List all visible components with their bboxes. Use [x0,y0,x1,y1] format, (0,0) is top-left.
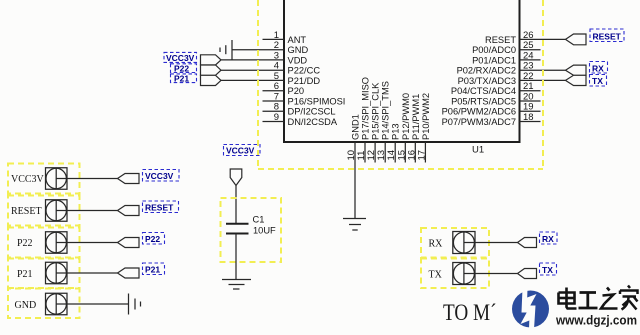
svg-text:P03/TX/ADC3: P03/TX/ADC3 [458,76,516,86]
connector J VCC3V [8,164,80,194]
wire [67,178,118,180]
wire pin26 RESET [520,38,566,40]
connector J GND [8,288,80,318]
wire [67,210,118,212]
svg-text:P06/PWM2/ADC6: P06/PWM2/ADC6 [442,107,516,117]
svg-text:P20: P20 [288,86,305,96]
svg-text:P21: P21 [174,74,189,84]
wire pin20 [520,100,541,102]
wire pin24 [520,59,541,61]
connector J P21 [8,259,80,289]
port P21 row4 [118,268,140,278]
svg-text:TO M´: TO M´ [443,300,497,325]
svg-text:P22: P22 [145,234,160,244]
wire pin10 GND1 [354,142,356,219]
svg-text:VCC3V: VCC3V [145,171,174,181]
svg-text:RESET: RESET [485,35,516,45]
net label P22 [171,63,197,73]
logo text dian [559,288,577,309]
ground under pin10 [343,219,366,231]
svg-text:P05/RTS/ADC5: P05/RTS/ADC5 [451,97,516,107]
connector J TX [421,259,489,289]
svg-text:VDD: VDD [288,55,308,65]
svg-text:RX: RX [429,239,444,250]
wire pin11 [364,142,366,163]
svg-text:P14/SPI_TMS: P14/SPI_TMS [381,81,391,140]
svg-text:P21: P21 [17,269,33,280]
wire [475,273,518,275]
svg-text:P22: P22 [17,238,33,249]
connector J RESET [8,196,80,226]
connector J P22 [8,228,80,258]
svg-text:P00/ADC0: P00/ADC0 [472,45,516,55]
svg-text:P07/PWM3/ADC7: P07/PWM3/ADC7 [442,117,516,127]
svg-text:P10/PWM2: P10/PWM2 [421,93,431,140]
svg-text:RX: RX [592,63,604,73]
port P22 left [201,65,222,75]
net label RX bottom [540,232,558,244]
svg-text:P12/PWM0: P12/PWM0 [401,93,411,140]
svg-text:10UF: 10UF [253,226,276,236]
svg-text:RESET: RESET [593,31,622,41]
logo text jia [620,286,638,310]
net label VCC3V [164,52,197,63]
wire [475,242,518,244]
port RX bottom [518,238,537,248]
wire [67,242,118,244]
net label P21 row4 [143,263,165,275]
wire pin18 [520,121,541,123]
logo lightning bolt [521,289,537,330]
logo circle [512,291,549,328]
svg-text:P15/SPI_CLK: P15/SPI_CLK [371,82,381,140]
svg-text:P02/RX/ADC2: P02/RX/ADC2 [457,66,516,76]
net label RESET [590,29,624,42]
svg-text:P16/SPIMOSI: P16/SPIMOSI [288,97,346,107]
port RX right [566,65,587,75]
net label TX [590,75,607,87]
op-amp U1 IC body [284,0,520,142]
wire pin22 TX [520,79,566,81]
wire pin15 [404,142,406,163]
wire C1 to ground [235,234,237,280]
net label P22 row3 [143,233,165,245]
svg-text:VCC3V: VCC3V [166,53,195,63]
wire pin17 [424,142,426,163]
svg-text:RX: RX [542,234,554,244]
wire pin3 VDD [221,59,284,61]
wire pin16 [414,142,416,163]
wire pin12 [374,142,376,163]
wire pin1 ANT [263,38,285,40]
net label TX bottom [540,263,557,275]
connector J RX [421,228,489,258]
svg-text:18: 18 [523,112,534,123]
wire VCC3V to C1 [235,186,237,224]
wire [67,303,129,305]
logo text zhi [601,288,618,309]
net label RX [590,62,608,74]
svg-text:www.dgzj.com: www.dgzj.com [555,313,637,328]
value C1 10UF [253,215,277,236]
port TX right [566,75,587,85]
svg-text:P13: P13 [391,123,401,140]
svg-text:P21/DD: P21/DD [288,76,321,86]
net label P21 [171,74,197,84]
svg-text:DN/I2CSDA: DN/I2CSDA [288,117,338,127]
svg-text:GND: GND [15,300,37,311]
svg-text:TX: TX [542,265,553,275]
port VCC3V down [230,169,242,186]
wire pin6 P20 [263,90,285,92]
wire pin8 DP [263,110,285,112]
svg-text:TX: TX [429,270,443,281]
wire pin25 [520,49,541,51]
wire pin5 P21/DD [221,79,284,81]
port RESET right [566,34,587,45]
wire pin19 [520,110,541,112]
wire pin13 [384,142,386,163]
wire pin9 DN [263,121,285,123]
svg-text:TX: TX [592,76,603,86]
svg-text:U1: U1 [472,145,484,156]
svg-text:17: 17 [416,150,427,161]
wire pin4 P22/CC [221,69,284,71]
capacitor C1 [226,224,249,234]
wire pin7 P16 [263,100,285,102]
svg-text:P21: P21 [145,265,160,275]
svg-text:P04/CTS/ADC4: P04/CTS/ADC4 [451,86,516,96]
svg-text:P22/CC: P22/CC [288,66,321,76]
svg-text:P01/ADC1: P01/ADC1 [472,55,516,65]
svg-text:ANT: ANT [288,35,307,45]
svg-text:GND: GND [288,45,309,55]
svg-text:P11/PWM1: P11/PWM1 [411,94,421,140]
wire pin21 [520,90,541,92]
svg-text:P22: P22 [174,63,189,73]
net label VCC3V top [224,145,261,156]
port RESET row2 [118,206,140,216]
wire pin2 GND [232,49,284,51]
svg-text:RESET: RESET [11,206,42,217]
port VCC3V left [201,55,222,65]
ground pin2 rotated [220,40,232,60]
selection box C1 [221,198,282,262]
svg-text:DP/I2CSCL: DP/I2CSCL [288,107,336,117]
wire [67,272,118,274]
svg-text:C1: C1 [253,215,265,225]
selection box U1 [258,0,543,169]
svg-text:GND1: GND1 [351,114,361,140]
ground under C1 [222,280,251,290]
port VCC3V row1 [118,174,140,184]
svg-text:RESET: RESET [145,203,174,213]
wire pin23 RX [520,69,566,71]
port P22 row3 [118,238,140,248]
svg-text:P17/SPI_MISO: P17/SPI_MISO [361,77,371,140]
ground GND row rotated [129,294,141,315]
svg-text:VCC3V: VCC3V [11,174,45,185]
net label RESET row2 [143,201,179,213]
wire pin14 [394,142,396,163]
svg-text:9: 9 [274,112,279,123]
logo text gong [579,293,598,309]
svg-text:VCC3V: VCC3V [226,146,255,156]
net label VCC3V row1 [143,170,180,182]
port TX bottom [518,269,537,279]
port P21 left [201,75,222,85]
